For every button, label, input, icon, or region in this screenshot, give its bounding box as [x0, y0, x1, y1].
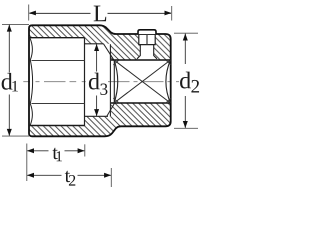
- pocket-square chamfer bottom: [107, 103, 115, 116]
- outer outline: [29, 25, 171, 136]
- square drive top edge: [111, 59, 171, 61]
- dimension t1: label: [52, 148, 57, 159]
- ball detent nub: [138, 30, 156, 34]
- dimension t2: line: [27, 174, 111, 176]
- dimension L: extension left: [28, 5, 30, 21]
- square diagonal 1: [114, 60, 171, 103]
- dimension L: label: [94, 6, 107, 22]
- square drive bottom edge: [111, 102, 171, 104]
- dimension t2: arrow left: [27, 173, 34, 178]
- dimension t2: extension right: [110, 168, 112, 187]
- dimension d2: line: [184, 34, 186, 128]
- square corner chamfer BR: [166, 98, 171, 103]
- dimension L: arrow right: [165, 11, 172, 16]
- dimension t1: arrow left: [27, 148, 34, 153]
- square drive left edge: [113, 60, 115, 103]
- pocket-square chamfer top: [104, 44, 115, 60]
- hex mouth arc middle: [30, 60, 32, 104]
- ball bore upper box: [139, 34, 155, 45]
- dimension t1: extension left: [26, 144, 28, 182]
- dimension d2: arrow down: [183, 121, 188, 128]
- hex end face: [84, 38, 86, 126]
- pocket end face: [109, 44, 111, 116]
- dimension L: extension right: [171, 6, 173, 21]
- dimension d2: arrow up: [183, 34, 188, 41]
- hex mouth arc top: [30, 38, 32, 60]
- dimension d2: label: [180, 72, 191, 89]
- dimension t2: label: [65, 171, 70, 182]
- dimension L: arrow left: [29, 11, 36, 16]
- hex mouth arc bottom: [30, 104, 32, 126]
- dimension t1: line: [27, 150, 84, 152]
- centerline: [23, 81, 87, 83]
- square left chamfer arc: [114, 60, 118, 103]
- ball bore lower channel: [137, 45, 157, 59]
- dimension d1: extension bottom: [2, 135, 29, 137]
- hex cavity ceiling: [30, 37, 85, 39]
- dimension d3: arrow up: [94, 44, 99, 51]
- hex internal edge upper: [32, 59, 85, 61]
- dimension d2: extension bottom: [174, 127, 198, 129]
- square corner chamfer TL: [113, 60, 119, 65]
- dimension d1: line: [8, 25, 10, 136]
- dimension d3: line: [96, 44, 98, 116]
- hex cavity floor: [30, 125, 85, 127]
- dimension L: line: [30, 12, 171, 14]
- socket body section hatching (material): [29, 25, 171, 136]
- dimension d2: extension top: [174, 32, 198, 34]
- dimension t2: arrow right: [104, 173, 111, 178]
- square corner chamfer TR: [166, 60, 171, 65]
- square right chamfer arc: [166, 60, 171, 103]
- square corner chamfer BL: [113, 98, 119, 103]
- dimension t1: arrow right: [78, 148, 85, 153]
- dimension d1: label: [2, 73, 13, 90]
- pocket ceiling: [85, 43, 104, 45]
- dimension d1: extension top: [2, 23, 29, 25]
- dimension t1: extension right: [84, 144, 86, 156]
- pocket floor: [85, 115, 109, 117]
- dimension d3: arrow down: [94, 109, 99, 116]
- square diagonal 2: [114, 60, 171, 103]
- ball bore middle line: [146, 34, 148, 45]
- hex internal edge lower: [32, 102, 85, 104]
- dimension d1: arrow up: [7, 25, 12, 32]
- dimension d1: arrow down: [7, 129, 12, 136]
- dimension d3: label: [89, 73, 100, 90]
